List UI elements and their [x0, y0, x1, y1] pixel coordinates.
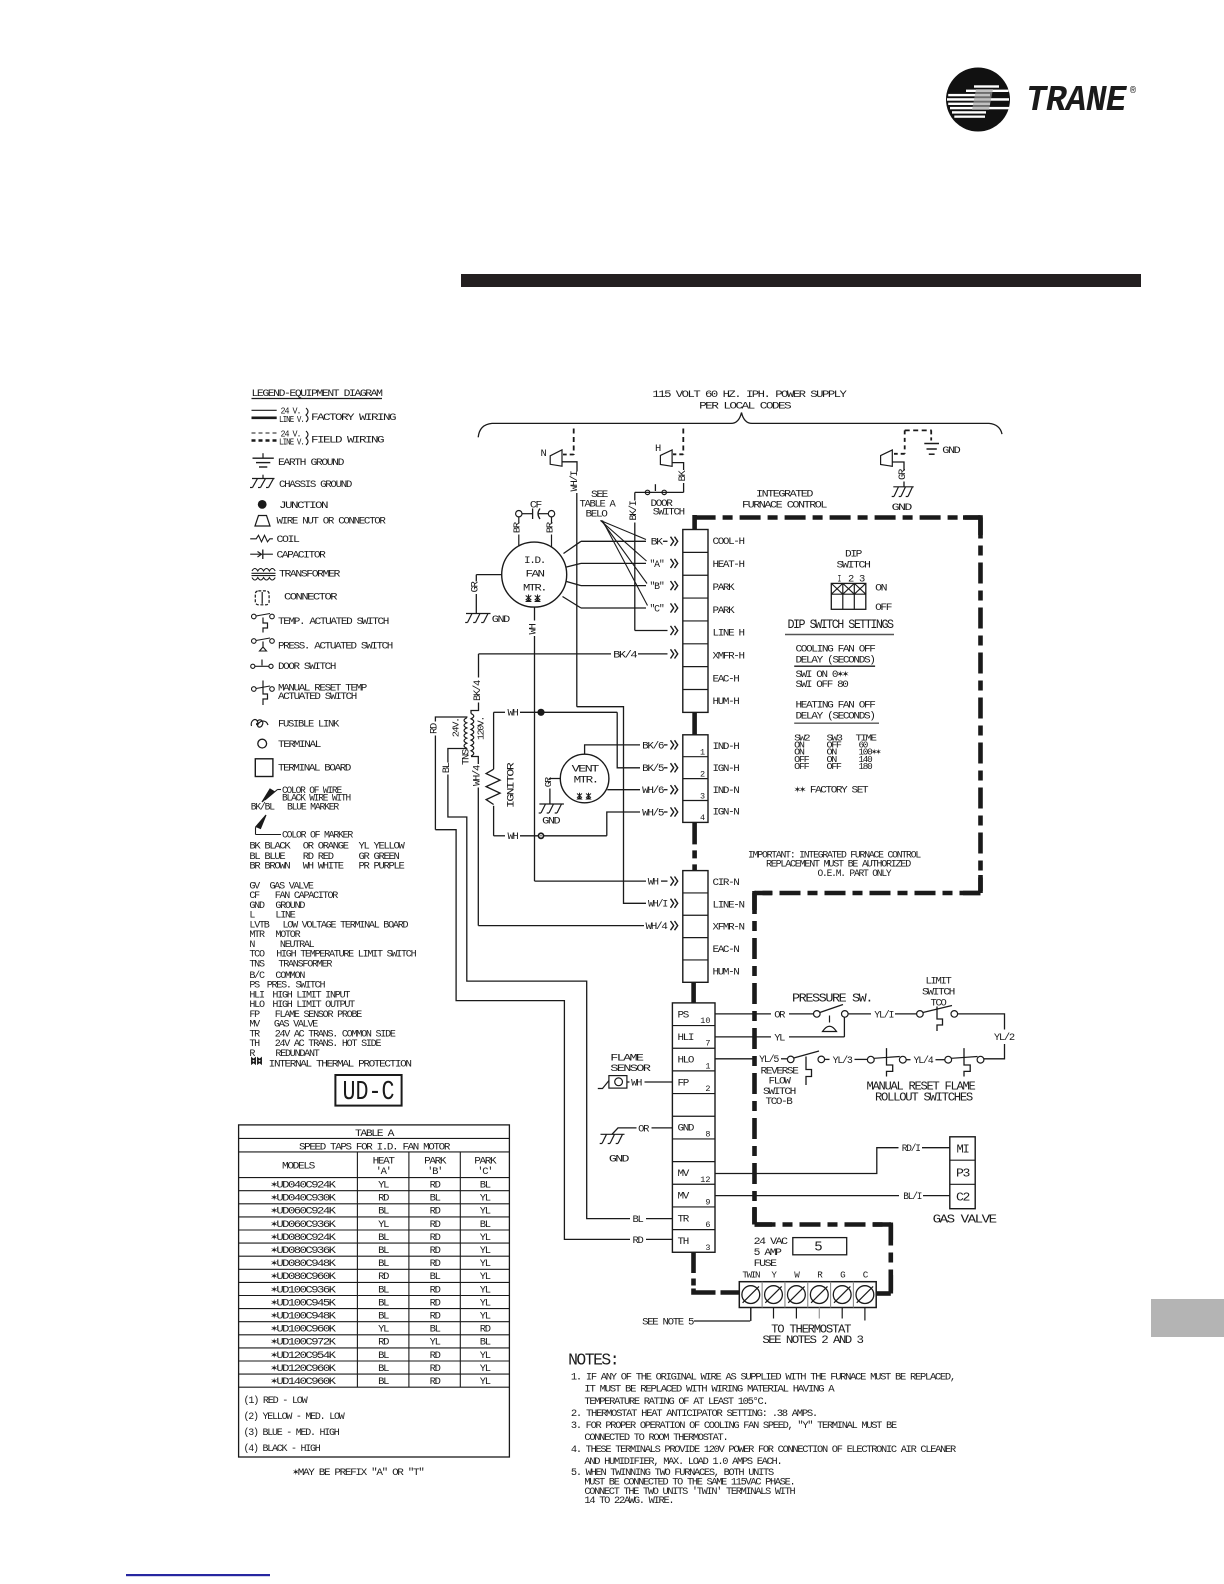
- svg-text:Y: Y: [771, 1270, 777, 1281]
- svg-text:DELAY (SECONDS): DELAY (SECONDS): [796, 711, 875, 723]
- svg-text:FACTORY WIRING: FACTORY WIRING: [311, 412, 396, 424]
- svg-text:GND: GND: [492, 614, 510, 626]
- wire BK/4 down to transformer: [478, 654, 480, 678]
- svg-text:WH/I: WH/I: [569, 471, 581, 492]
- svg-text:✶UD060C924K: ✶UD060C924K: [271, 1206, 337, 1218]
- IFC border corner joints: [963, 515, 981, 520]
- svg-text:5: 5: [814, 1240, 822, 1256]
- svg-text:TR: TR: [678, 1213, 690, 1225]
- fuse box: [793, 1238, 847, 1255]
- svg-text:BK/5: BK/5: [642, 763, 664, 775]
- svg-text:FAN: FAN: [526, 569, 545, 581]
- svg-text:GND: GND: [892, 502, 912, 514]
- svg-text:BK/I: BK/I: [628, 501, 640, 521]
- svg-text:'B': 'B': [427, 1166, 442, 1178]
- legend fusible link: [251, 720, 268, 728]
- wire WH to CIR-N: [534, 878, 536, 881]
- legend field wiring LINE V dashed: [252, 439, 277, 442]
- svg-text:YL: YL: [774, 1032, 785, 1044]
- svg-text:HLI: HLI: [678, 1032, 695, 1044]
- svg-text:TWIN: TWIN: [742, 1270, 759, 1281]
- svg-text:2: 2: [700, 769, 705, 779]
- wire from H connector: [672, 463, 684, 470]
- svg-text:RD: RD: [430, 1232, 441, 1244]
- svg-text:1: 1: [705, 1061, 710, 1071]
- svg-text:CAPACITOR: CAPACITOR: [277, 550, 327, 562]
- svg-text:✶UD080C960K: ✶UD080C960K: [271, 1271, 337, 1283]
- svg-text:7: 7: [705, 1039, 710, 1049]
- svg-text:BK/4: BK/4: [472, 680, 484, 701]
- svg-text:MTR.: MTR.: [574, 775, 598, 787]
- svg-text:UD-C: UD-C: [343, 1078, 395, 1108]
- legend temp actuated switch: [252, 614, 257, 619]
- svg-text:BELO: BELO: [586, 509, 608, 521]
- svg-text:MTR.: MTR.: [523, 583, 546, 595]
- limit switch TCO: [917, 1011, 924, 1018]
- transformer 120V bottom lead WH/4: [471, 757, 478, 765]
- svg-text:BK/6: BK/6: [642, 740, 664, 752]
- svg-text:LINE V.: LINE V.: [279, 438, 304, 448]
- svg-text:RD: RD: [430, 1219, 441, 1231]
- svg-text:W: W: [794, 1270, 800, 1281]
- svg-text:LINE V.: LINE V.: [279, 415, 304, 425]
- wire GR from motor: [476, 574, 501, 576]
- svg-text:(1) RED - LOW: (1) RED - LOW: [244, 1395, 309, 1407]
- svg-text:(3) BLUE - MED. HIGH: (3) BLUE - MED. HIGH: [244, 1427, 340, 1439]
- svg-text:BL: BL: [480, 1180, 491, 1192]
- svg-text:24V.: 24V.: [451, 718, 462, 737]
- svg-text:BLUE MARKER: BLUE MARKER: [287, 802, 340, 814]
- hot H dashed drop wire: [682, 429, 684, 455]
- svg-text:BL: BL: [480, 1337, 491, 1349]
- junction dot upper WH: [537, 709, 544, 716]
- callout fan lines: [601, 521, 647, 540]
- svg-text:115 VOLT 60 HZ. IPH. POWER SUP: 115 VOLT 60 HZ. IPH. POWER SUPPLY: [652, 389, 847, 401]
- svg-text:✶UD100C972K: ✶UD100C972K: [271, 1337, 337, 1349]
- thick wire below TH: [691, 1252, 696, 1273]
- wire door switch to LINE H: [635, 630, 668, 632]
- svg-text:SENSOR: SENSOR: [610, 1063, 652, 1075]
- svg-text:WH/4: WH/4: [472, 765, 484, 786]
- svg-text:®: ®: [1130, 85, 1136, 97]
- svg-text:BL: BL: [441, 762, 453, 773]
- svg-text:P3: P3: [956, 1168, 970, 1181]
- svg-text:BK: BK: [651, 537, 664, 549]
- svg-text:RD: RD: [378, 1337, 389, 1349]
- svg-text:YL: YL: [480, 1376, 491, 1388]
- svg-text:OFF: OFF: [875, 602, 892, 614]
- legend connector symbol: [255, 591, 269, 605]
- svg-text:8: 8: [705, 1129, 710, 1139]
- svg-text:SEE NOTES 2 AND 3: SEE NOTES 2 AND 3: [762, 1335, 863, 1347]
- svg-text:IGNITOR: IGNITOR: [506, 761, 518, 808]
- footer blue rule: [126, 1574, 270, 1576]
- svg-text:PER LOCAL CODES: PER LOCAL CODES: [699, 401, 791, 413]
- wire BK/5 from WH line to IGN-H: [617, 712, 640, 768]
- svg-text:BL: BL: [378, 1284, 389, 1296]
- svg-text:AND HUMIDIFIER, MAX. LOAD 1.0: AND HUMIDIFIER, MAX. LOAD 1.0 AMPS EACH.: [584, 1456, 781, 1468]
- wire RD transformer to TH: [435, 830, 630, 1240]
- thermostat terminal strip: [739, 1282, 876, 1308]
- svg-text:YL: YL: [480, 1350, 491, 1362]
- svg-text:✶✶ FACTORY SET: ✶✶ FACTORY SET: [794, 785, 868, 797]
- svg-text:TEMP. ACTUATED SWITCH: TEMP. ACTUATED SWITCH: [278, 616, 389, 628]
- rollout switch 1: [867, 1056, 874, 1063]
- wire YL/3: [825, 1058, 830, 1060]
- svg-text:4: 4: [700, 813, 705, 823]
- svg-text:FUSE: FUSE: [754, 1258, 777, 1270]
- internal thermal protection note: [252, 1058, 256, 1065]
- svg-text:YL: YL: [378, 1219, 389, 1231]
- chassis ground top right: [893, 486, 913, 488]
- wire BK motor to COOL-H: [564, 541, 582, 553]
- svg-text:CIR-N: CIR-N: [713, 877, 740, 889]
- svg-text:✶MAY BE PREFIX "A" OR "T": ✶MAY BE PREFIX "A" OR "T": [293, 1467, 424, 1479]
- svg-text:YL: YL: [480, 1206, 491, 1218]
- svg-text:YL: YL: [480, 1245, 491, 1257]
- svg-text:SWITCH: SWITCH: [837, 560, 871, 572]
- chassis ground vent motor: [539, 803, 564, 805]
- svg-text:FURNACE CONTROL: FURNACE CONTROL: [742, 500, 827, 512]
- svg-text:BL: BL: [430, 1271, 441, 1283]
- dip switch block: [831, 583, 866, 609]
- wire YL/5 HLO to reverse flow switch: [715, 1058, 756, 1060]
- svg-text:BK/BL: BK/BL: [251, 802, 275, 814]
- svg-text:✶UD100C945K: ✶UD100C945K: [271, 1297, 337, 1309]
- svg-text:COOL-H: COOL-H: [713, 536, 745, 548]
- svg-text:TCO-B: TCO-B: [766, 1096, 793, 1108]
- svg-text:TH: TH: [678, 1236, 689, 1248]
- wire from N connector: [562, 462, 577, 472]
- wire WH/4 to XFMR-N: [478, 925, 644, 927]
- svg-text:G: G: [840, 1270, 846, 1281]
- door switch: [635, 491, 684, 493]
- gray sidebar box: [1151, 1299, 1224, 1337]
- svg-text:GAS VALVE: GAS VALVE: [933, 1214, 998, 1227]
- legend factory wiring 24V line: [252, 409, 277, 411]
- legend transformer symbol: [252, 569, 275, 572]
- svg-text:MV: MV: [678, 1191, 690, 1203]
- svg-text:HUM-N: HUM-N: [713, 966, 740, 978]
- black header bar: [461, 274, 1141, 287]
- legend wire nut symbol: [255, 516, 270, 527]
- svg-text:IGN-N: IGN-N: [713, 807, 740, 819]
- reverse flow switch TCO-B: [787, 1056, 794, 1063]
- pressure switch: [814, 1011, 821, 1018]
- svg-text:YL: YL: [480, 1271, 491, 1283]
- color of marker callout: [256, 815, 266, 829]
- wire YL/1 to limit switch: [848, 1013, 871, 1015]
- svg-text:C2: C2: [956, 1192, 970, 1205]
- svg-text:GR: GR: [897, 468, 909, 480]
- svg-text:RD: RD: [430, 1376, 441, 1388]
- svg-text:HEAT-H: HEAT-H: [713, 559, 745, 571]
- svg-text:3: 3: [700, 791, 705, 801]
- svg-text:WH/5: WH/5: [642, 807, 664, 819]
- thick wire block N to block LV: [691, 982, 696, 1003]
- svg-text:180: 180: [859, 761, 873, 772]
- svg-text:BR: BR: [512, 521, 523, 533]
- neutral vertical wire: [576, 493, 578, 707]
- svg-text:EAC-H: EAC-H: [713, 673, 740, 685]
- svg-text:FP: FP: [678, 1077, 689, 1089]
- svg-text:NOTES:: NOTES:: [568, 1351, 618, 1370]
- svg-text:RD: RD: [430, 1245, 441, 1257]
- svg-text:BL: BL: [430, 1324, 441, 1336]
- svg-text:PRESSURE SW.: PRESSURE SW.: [792, 993, 872, 1006]
- svg-text:1: 1: [700, 748, 705, 758]
- svg-text:GND: GND: [942, 445, 960, 457]
- svg-text:"C": "C": [650, 604, 664, 616]
- wire RD/1 MV12 to gas valve: [715, 1148, 899, 1174]
- svg-text:YL: YL: [480, 1363, 491, 1375]
- svg-text:BL: BL: [378, 1363, 389, 1375]
- svg-text:'A': 'A': [376, 1166, 391, 1178]
- svg-text:RD: RD: [430, 1206, 441, 1218]
- svg-text:BK/4: BK/4: [613, 649, 637, 661]
- svg-text:DOOR SWITCH: DOOR SWITCH: [278, 661, 336, 673]
- wire GND connector down: [892, 462, 904, 471]
- svg-text:RD: RD: [430, 1284, 441, 1296]
- svg-text:RD: RD: [430, 1350, 441, 1362]
- svg-text:14 TO 22AWG. WIRE.: 14 TO 22AWG. WIRE.: [584, 1495, 673, 1507]
- legend coil symbol: [250, 535, 273, 542]
- svg-text:"A": "A": [650, 559, 664, 571]
- legend press actuated switch: [252, 639, 257, 644]
- svg-text:RD: RD: [430, 1258, 441, 1270]
- wires below strip: [750, 1308, 752, 1321]
- legend terminal: [258, 739, 267, 748]
- svg-text:WH: WH: [508, 831, 519, 843]
- svg-text:YL: YL: [480, 1232, 491, 1244]
- svg-text:IT MUST BE REPLACED WITH WIRIN: IT MUST BE REPLACED WITH WIRING MATERIAL…: [584, 1384, 835, 1396]
- svg-text:TNS: TNS: [249, 958, 264, 970]
- connector block ignition (IND-H..IGN-N): [683, 735, 708, 823]
- svg-text:LOW VOLTAGE TERMINAL BOARD: LOW VOLTAGE TERMINAL BOARD: [283, 919, 409, 931]
- color of wire callout: [262, 789, 274, 802]
- svg-text:✶UD080C924K: ✶UD080C924K: [271, 1232, 337, 1244]
- svg-text:✶UD060C936K: ✶UD060C936K: [271, 1219, 337, 1231]
- svg-text:4. THESE TERMINALS PROVIDE 120: 4. THESE TERMINALS PROVIDE 120V POWER FO…: [571, 1444, 957, 1456]
- svg-text:10: 10: [700, 1016, 710, 1026]
- GND dashed wires top right: [905, 429, 932, 431]
- svg-text:YL: YL: [378, 1324, 389, 1336]
- svg-text:RD: RD: [480, 1324, 491, 1336]
- svg-text:BL: BL: [430, 1193, 441, 1205]
- thick wire IFC top to block H: [692, 515, 697, 530]
- wire YL/4: [906, 1059, 910, 1061]
- upper WH junction line: [494, 711, 505, 713]
- svg-text:BL: BL: [480, 1219, 491, 1231]
- svg-text:'C': 'C': [477, 1166, 492, 1178]
- svg-text:BK: BK: [677, 470, 689, 482]
- svg-text:3: 3: [705, 1243, 710, 1253]
- svg-text:YL: YL: [480, 1297, 491, 1309]
- svg-text:✶UD080C936K: ✶UD080C936K: [271, 1245, 337, 1257]
- svg-text:FUSIBLE LINK: FUSIBLE LINK: [278, 719, 340, 731]
- svg-text:PARK: PARK: [713, 582, 736, 594]
- svg-text:YL/5: YL/5: [759, 1054, 779, 1066]
- svg-text:TRANSFORMER: TRANSFORMER: [278, 958, 333, 970]
- svg-text:XMFR-H: XMFR-H: [713, 651, 745, 663]
- legend terminal board: [255, 759, 273, 777]
- motor internal thermal protection marks: [526, 595, 532, 602]
- svg-text:BL: BL: [633, 1214, 644, 1226]
- transformer TNS windings: [471, 714, 474, 757]
- earth ground symbol top right: [924, 443, 939, 445]
- svg-text:PR PURPLE: PR PURPLE: [359, 861, 405, 873]
- svg-text:IGN-H: IGN-H: [713, 763, 740, 775]
- neutral line to LINE-N: [577, 707, 646, 904]
- svg-text:WH/I: WH/I: [648, 899, 668, 911]
- svg-text:WH/6: WH/6: [642, 785, 664, 797]
- wire YL HLI to pressure switch: [715, 1036, 771, 1038]
- svg-text:✶UD040C924K: ✶UD040C924K: [271, 1180, 337, 1192]
- svg-text:YL/4: YL/4: [914, 1055, 934, 1067]
- svg-text:WH: WH: [631, 1077, 642, 1089]
- svg-text:RD: RD: [633, 1235, 644, 1247]
- legend junction symbol: [258, 500, 267, 509]
- wire B motor to PARK: [567, 582, 582, 586]
- wire C motor to PARK 2: [563, 597, 582, 609]
- IFC dashed border: [695, 515, 981, 520]
- svg-text:FIELD WIRING: FIELD WIRING: [311, 435, 384, 447]
- svg-text:3. FOR PROPER OPERATION OF COO: 3. FOR PROPER OPERATION OF COOLING FAN S…: [571, 1420, 897, 1432]
- legend capacitor symbol: [250, 553, 260, 555]
- svg-text:BL: BL: [378, 1232, 389, 1244]
- svg-text:✶UD040C930K: ✶UD040C930K: [271, 1193, 337, 1205]
- svg-text:BL: BL: [378, 1206, 389, 1218]
- ignitor resistor: [493, 712, 495, 769]
- svg-text:WH WHITE: WH WHITE: [303, 861, 344, 873]
- svg-text:EARTH GROUND: EARTH GROUND: [278, 457, 344, 469]
- svg-text:RD: RD: [430, 1363, 441, 1375]
- svg-text:HUM-H: HUM-H: [713, 696, 740, 708]
- svg-text:LINE H: LINE H: [713, 628, 745, 640]
- svg-text:12: 12: [700, 1175, 710, 1185]
- svg-text:CONNECTOR: CONNECTOR: [284, 592, 338, 604]
- flame sensor: [609, 1076, 627, 1089]
- svg-text:BR BROWN: BR BROWN: [249, 861, 290, 873]
- svg-text:RD: RD: [429, 723, 441, 734]
- svg-text:RD: RD: [430, 1297, 441, 1309]
- svg-text:DELAY (SECONDS): DELAY (SECONDS): [796, 655, 875, 667]
- svg-text:RD: RD: [430, 1311, 441, 1323]
- svg-text:9: 9: [705, 1197, 710, 1207]
- terminal screws: [742, 1286, 760, 1304]
- neutral N dashed drop wire: [573, 429, 575, 456]
- svg-text:O.E.M. PART ONLY: O.E.M. PART ONLY: [818, 868, 893, 880]
- svg-text:PARK: PARK: [713, 605, 736, 617]
- svg-text:XFMR-N: XFMR-N: [713, 922, 745, 934]
- svg-text:LINE-N: LINE-N: [713, 899, 745, 911]
- wire door switch down to LINE H: [634, 492, 636, 500]
- connector block LV (PS..TH): [672, 1003, 715, 1252]
- svg-text:MODELS: MODELS: [282, 1161, 315, 1173]
- svg-text:"B": "B": [650, 581, 664, 593]
- svg-text:ON: ON: [875, 583, 887, 595]
- chassis ground flame: [601, 1133, 625, 1135]
- svg-text:INTERNAL THERMAL PROTECTION: INTERNAL THERMAL PROTECTION: [269, 1059, 412, 1071]
- svg-text:YL/I: YL/I: [874, 1009, 894, 1021]
- connector GND: [881, 450, 893, 466]
- svg-text:(2) YELLOW - MED. LOW: (2) YELLOW - MED. LOW: [244, 1411, 346, 1423]
- legend door switch: [251, 664, 255, 668]
- svg-text:GND: GND: [609, 1154, 629, 1166]
- wire BK/4 transformer to XMFR-H: [479, 653, 612, 655]
- svg-text:C: C: [863, 1270, 869, 1281]
- svg-text:SWI OFF 80: SWI OFF 80: [796, 679, 849, 691]
- svg-text:1. IF ANY OF THE ORIGINAL WIRE: 1. IF ANY OF THE ORIGINAL WIRE AS SUPPLI…: [571, 1372, 955, 1384]
- svg-text:✶UD100C948K: ✶UD100C948K: [271, 1311, 337, 1323]
- svg-text:IND-H: IND-H: [713, 741, 740, 753]
- svg-text:COIL: COIL: [277, 534, 300, 546]
- svg-text:TERMINAL BOARD: TERMINAL BOARD: [278, 763, 351, 775]
- svg-text:TRANE: TRANE: [1026, 80, 1128, 121]
- svg-text:ACTUATED SWITCH: ACTUATED SWITCH: [278, 691, 357, 703]
- TRANE logo circle: [946, 68, 1010, 132]
- svg-text:TABLE A: TABLE A: [355, 1128, 395, 1140]
- svg-text:2. THERMOSTAT HEAT ANTICIPATOR: 2. THERMOSTAT HEAT ANTICIPATOR SETTING: …: [571, 1408, 817, 1420]
- svg-text:✶UD120C954K: ✶UD120C954K: [271, 1350, 337, 1362]
- capacitor CF: [516, 511, 522, 517]
- svg-text:CHASSIS GROUND: CHASSIS GROUND: [279, 479, 352, 491]
- svg-text:WH: WH: [528, 624, 540, 635]
- svg-text:WIRE NUT OR CONNECTOR: WIRE NUT OR CONNECTOR: [277, 516, 387, 528]
- wire BK/6 vent motor to IND-H: [585, 745, 640, 754]
- svg-text:BR: BR: [544, 521, 555, 533]
- legend earth ground symbol: [262, 453, 264, 458]
- svg-text:2: 2: [705, 1084, 710, 1094]
- vent motor circle: [560, 754, 609, 803]
- svg-text:OR: OR: [638, 1123, 650, 1135]
- wire YL/2 limit switch to rollout: [958, 1014, 1005, 1030]
- svg-text:CF: CF: [530, 500, 542, 512]
- svg-text:MV: MV: [678, 1168, 690, 1180]
- svg-text:MI: MI: [957, 1144, 969, 1157]
- svg-text:OFF: OFF: [794, 761, 810, 772]
- legend manual reset temp actuated switch: [252, 687, 257, 692]
- svg-text:COLOR OF MARKER: COLOR OF MARKER: [282, 830, 354, 842]
- svg-text:EAC-N: EAC-N: [713, 944, 740, 956]
- svg-text:RD: RD: [430, 1180, 441, 1192]
- svg-text:I.D.: I.D.: [524, 555, 545, 567]
- svg-text:JUNCTION: JUNCTION: [279, 500, 328, 512]
- wire BL transformer to TR: [448, 817, 630, 1219]
- rollout switch 2: [945, 1056, 952, 1063]
- connector block N (CIR-N..HUM-N): [683, 871, 708, 983]
- vent motor thermal marks: [577, 793, 582, 799]
- wire PS to pressure switch: [715, 1013, 771, 1015]
- svg-text:GND: GND: [542, 816, 560, 828]
- svg-text:BL: BL: [378, 1245, 389, 1257]
- svg-text:✶UD140C960K: ✶UD140C960K: [271, 1376, 337, 1388]
- svg-text:WH/4: WH/4: [646, 921, 668, 933]
- svg-text:YL: YL: [480, 1311, 491, 1323]
- wire WH/5 to IGN-N: [607, 812, 640, 836]
- svg-text:✶UD100C936K: ✶UD100C936K: [271, 1284, 337, 1296]
- svg-text:TRANSFORMER: TRANSFORMER: [279, 569, 341, 581]
- svg-text:DIP SWITCH SETTINGS: DIP SWITCH SETTINGS: [788, 618, 894, 632]
- svg-text:✶UD100C960K: ✶UD100C960K: [271, 1324, 337, 1336]
- svg-text:120V.: 120V.: [476, 717, 487, 740]
- svg-text:GR: GR: [469, 581, 481, 593]
- svg-text:YL: YL: [378, 1180, 389, 1192]
- power supply brace: [478, 413, 1002, 438]
- table A frame: [239, 1125, 510, 1457]
- thick wire block H to block ign: [692, 712, 697, 734]
- svg-text:ROLLOUT SWITCHES: ROLLOUT SWITCHES: [875, 1092, 973, 1105]
